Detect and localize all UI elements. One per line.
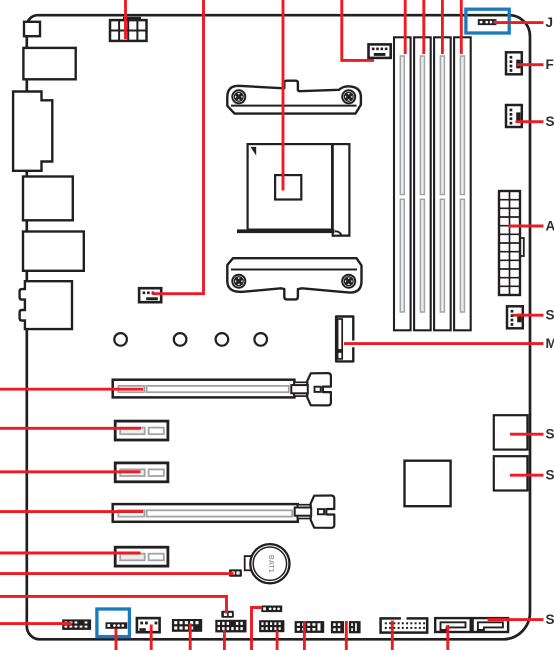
svg-text:F: F — [546, 57, 554, 72]
svg-text:S: S — [546, 468, 554, 483]
svg-text:BAT1: BAT1 — [267, 555, 274, 573]
svg-text:M: M — [546, 336, 554, 351]
svg-text:S: S — [546, 427, 554, 442]
svg-text:J: J — [546, 15, 554, 30]
svg-text:S: S — [546, 612, 554, 627]
svg-text:S: S — [546, 308, 554, 323]
svg-text:S: S — [546, 114, 554, 129]
svg-text:A: A — [546, 219, 554, 234]
